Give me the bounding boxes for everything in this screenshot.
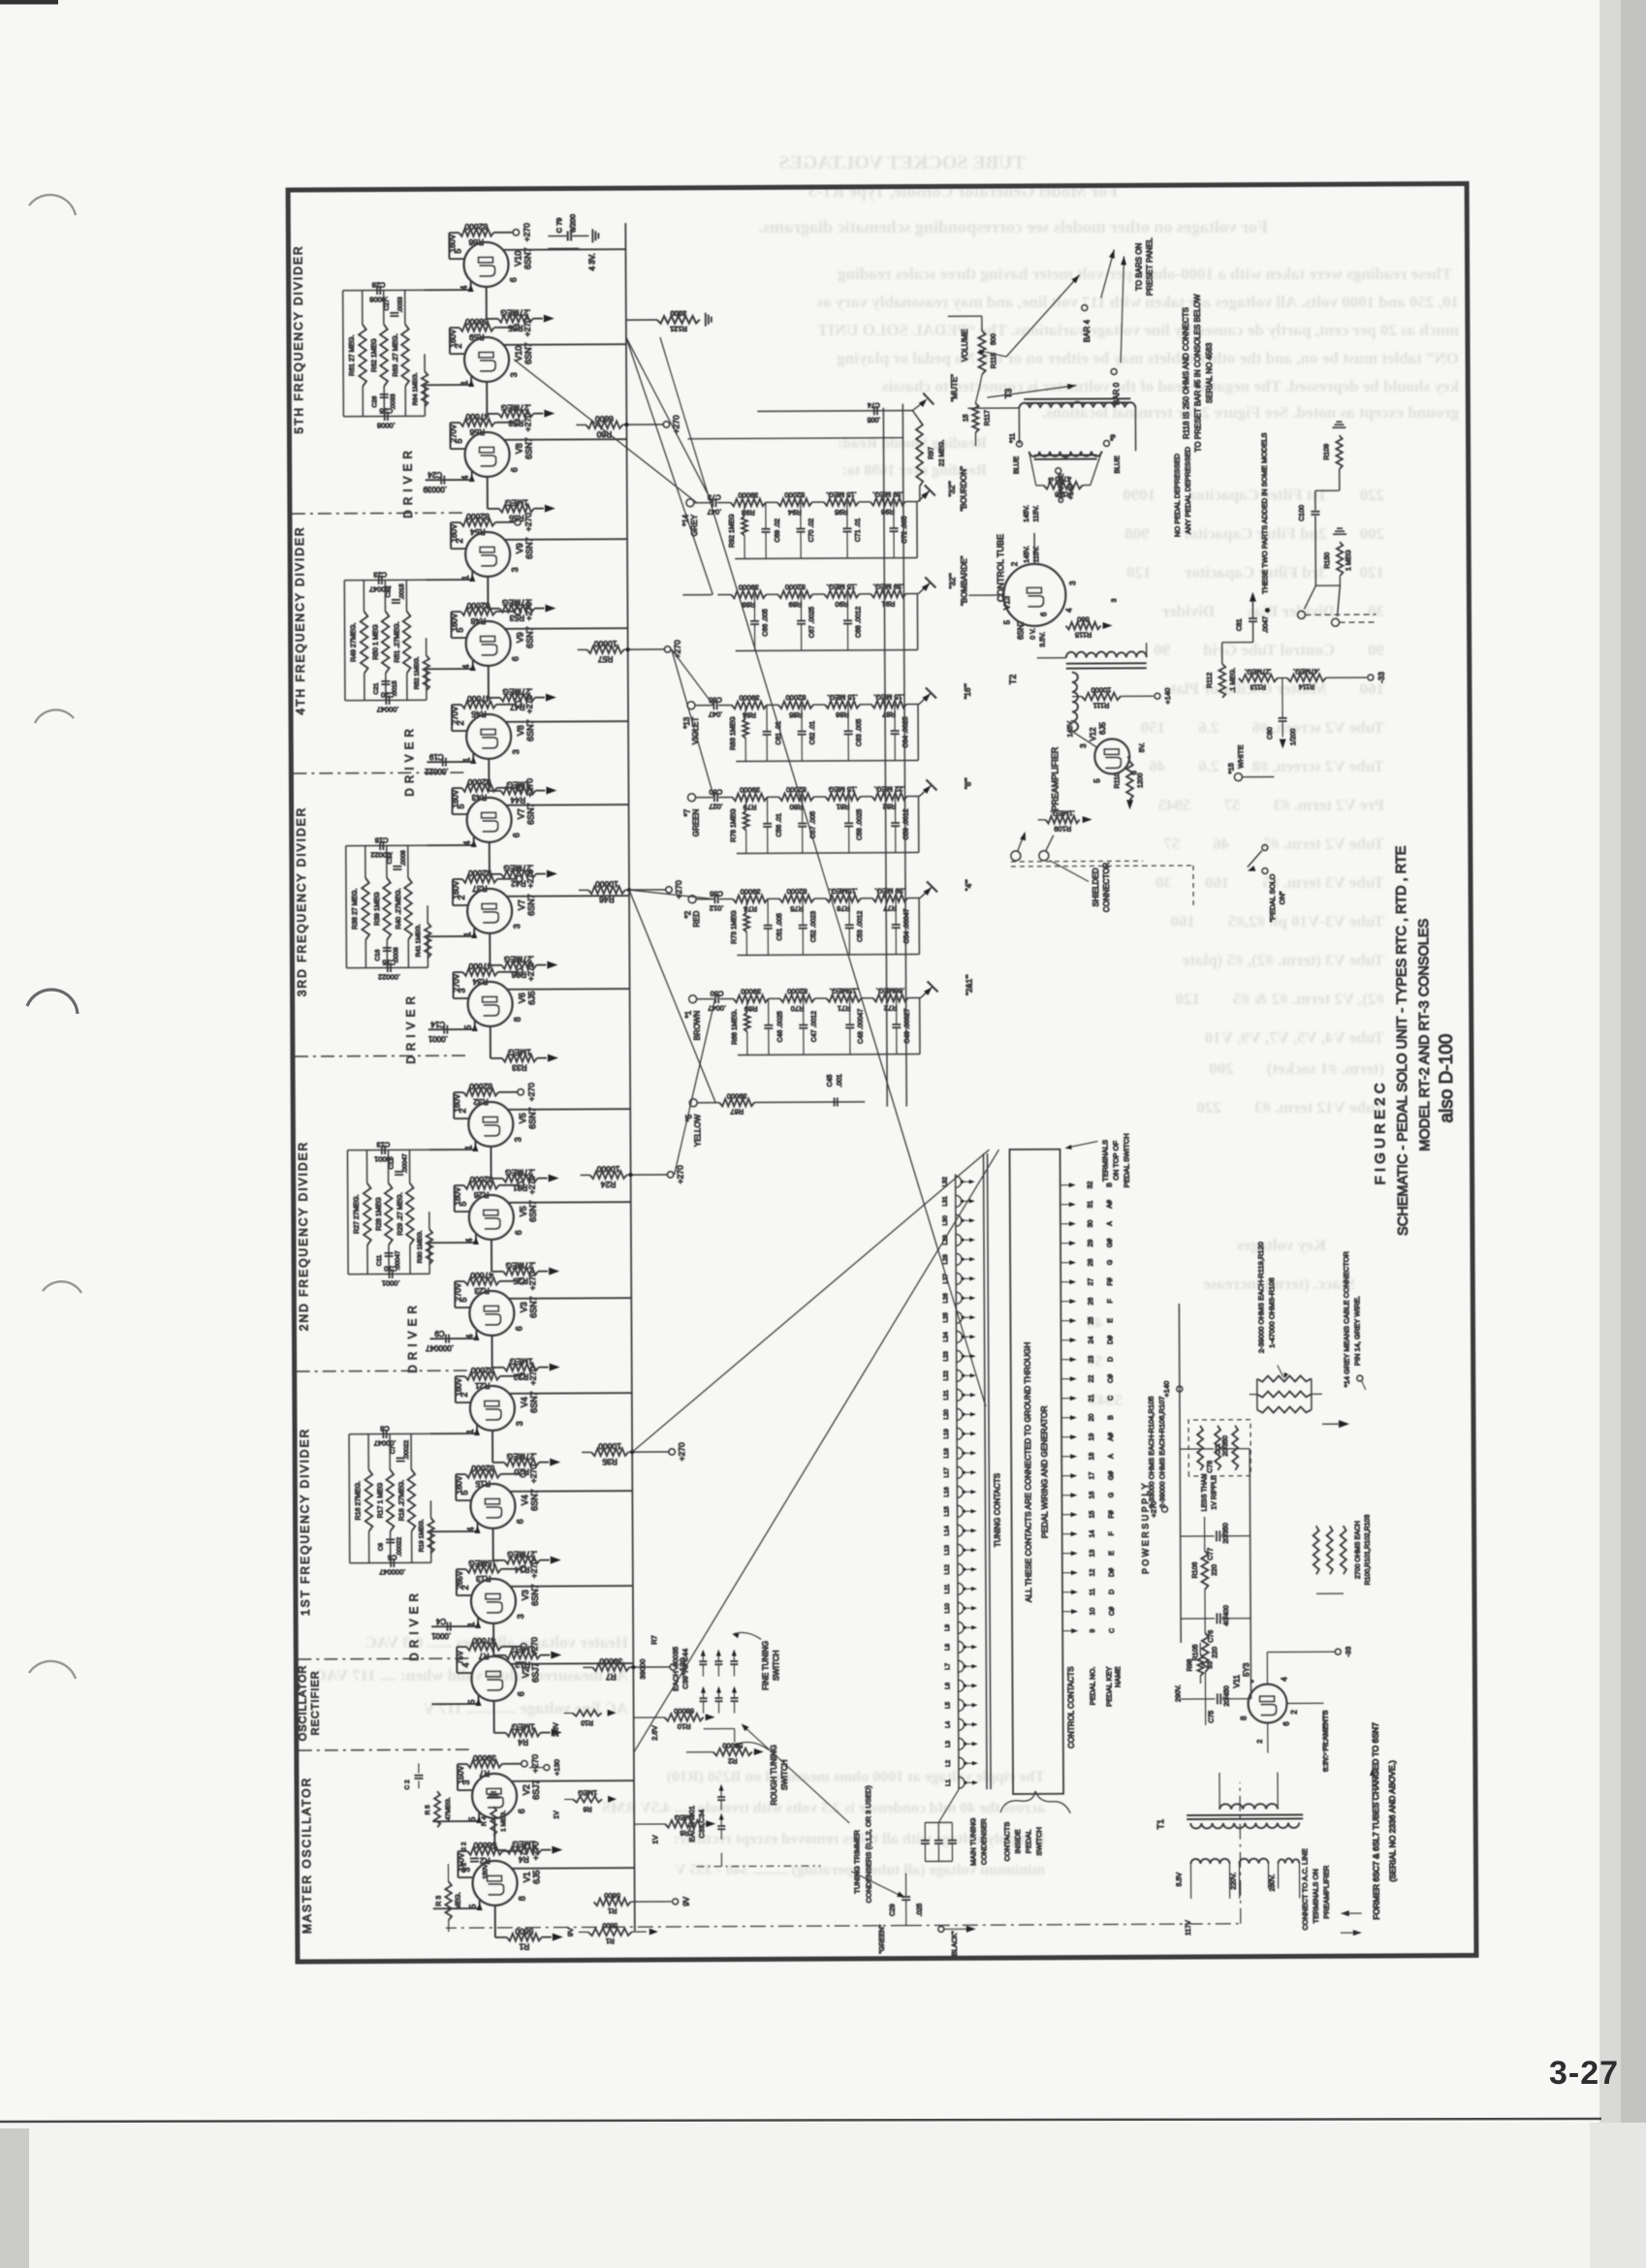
svg-text:C67 .0025: C67 .0025 xyxy=(808,607,815,638)
wire xyxy=(1011,865,1143,867)
terminal xyxy=(687,702,695,709)
svg-text:R28 1MEG: R28 1MEG xyxy=(376,1197,383,1231)
control contact 22 xyxy=(1061,1378,1073,1380)
wire xyxy=(292,512,467,515)
resistor R48 xyxy=(460,608,495,615)
svg-text:"8'": "8'" xyxy=(964,777,972,789)
wire xyxy=(963,1316,972,1318)
tuning contact L21 xyxy=(957,1389,963,1401)
wire xyxy=(342,291,345,417)
wire xyxy=(956,1174,959,1789)
control contact 10 xyxy=(1062,1611,1074,1613)
wire xyxy=(478,1694,480,1704)
capacitor xyxy=(396,1460,405,1462)
tuning contact L26 xyxy=(956,1292,962,1304)
wire xyxy=(918,898,920,955)
svg-text:R18 .27MEG.: R18 .27MEG. xyxy=(398,1480,405,1521)
svg-text:C6: C6 xyxy=(378,1542,385,1551)
wire xyxy=(744,501,766,503)
wire xyxy=(533,318,543,320)
wire xyxy=(1266,1653,1268,1685)
svg-text:39000: 39000 xyxy=(473,1753,496,1763)
tube V5 6SN7 xyxy=(469,1195,514,1240)
svg-text:G#: G# xyxy=(1108,1471,1115,1480)
tuning contact L29 xyxy=(956,1234,962,1245)
wire xyxy=(919,998,921,1055)
wire xyxy=(1305,614,1376,615)
wire xyxy=(510,1663,555,1665)
svg-text:R29 .27 MEG.: R29 .27 MEG. xyxy=(397,1192,404,1235)
wire xyxy=(581,1174,590,1176)
wire xyxy=(926,779,936,790)
svg-text:ALL THESE CONTACTS ARE CON: ALL THESE CONTACTS ARE CONNECTED TO GROU… xyxy=(1023,1342,1033,1603)
svg-text:.22 MEG.: .22 MEG. xyxy=(874,785,905,794)
resistor R121 xyxy=(657,316,700,324)
svg-text:270V: 270V xyxy=(449,424,458,442)
svg-text:R61 27 MEG.: R61 27 MEG. xyxy=(349,334,356,375)
resistor R84 xyxy=(732,702,767,709)
wire xyxy=(719,797,733,799)
svg-text:R57: R57 xyxy=(598,654,614,664)
wire xyxy=(859,593,870,595)
svg-text:+270: +270 xyxy=(671,415,681,433)
resistor R91 xyxy=(870,590,905,598)
svg-text:27: 27 xyxy=(1088,1278,1094,1286)
svg-text:G#: G# xyxy=(1107,1239,1114,1247)
svg-text:.15 MEG: .15 MEG xyxy=(828,785,857,794)
wire xyxy=(964,1336,973,1338)
svg-text:D: D xyxy=(1109,1590,1116,1594)
wire xyxy=(453,813,467,815)
svg-text:1MEG: 1MEG xyxy=(508,1048,531,1057)
svg-text:"BLACK": "BLACK" xyxy=(952,1931,959,1958)
wire xyxy=(965,1781,975,1783)
svg-text:8: 8 xyxy=(1240,1716,1249,1720)
svg-text:R78 1MEG: R78 1MEG xyxy=(731,808,738,842)
svg-text:C21: C21 xyxy=(373,682,380,694)
resistor R57 xyxy=(587,646,624,653)
svg-text:R121: R121 xyxy=(670,325,687,333)
wire xyxy=(918,704,919,706)
svg-text:Tube V2 screen, #6 2.6: Tube V2 screen, #6 2.6 150 xyxy=(1141,718,1384,737)
wire xyxy=(1127,756,1129,761)
capacitor xyxy=(442,758,444,767)
svg-text:C78: C78 xyxy=(1207,1461,1214,1473)
wire xyxy=(477,1522,479,1531)
resistor R113 xyxy=(1239,675,1278,682)
svg-text:C12: C12 xyxy=(389,1157,396,1169)
wire xyxy=(409,1244,411,1274)
terminal xyxy=(686,499,694,507)
svg-text:L21: L21 xyxy=(943,1390,950,1401)
tuning contact L25 xyxy=(956,1311,962,1323)
svg-text:V5: V5 xyxy=(519,1206,528,1216)
control contact 25 xyxy=(1060,1320,1072,1322)
wire xyxy=(457,1764,459,1790)
wire xyxy=(906,704,918,706)
svg-text:1MEG: 1MEG xyxy=(578,1788,597,1795)
wire xyxy=(450,612,452,638)
capacitor xyxy=(714,1663,722,1665)
svg-text:18: 18 xyxy=(1089,1453,1095,1461)
svg-text:R41 1MEG.: R41 1MEG. xyxy=(415,924,422,957)
wire xyxy=(688,438,903,439)
svg-text:C54 .00047: C54 .00047 xyxy=(903,908,910,943)
svg-text:Tube V3-V10 pl. #2,#5 1: Tube V3-V10 pl. #2,#5 160 xyxy=(1170,912,1384,930)
ground arrow xyxy=(546,787,556,795)
svg-text:TERMINALS ON: TERMINALS ON xyxy=(1311,1869,1319,1923)
wire xyxy=(457,1672,471,1674)
svg-text:39000: 39000 xyxy=(741,887,761,896)
resistor R20 xyxy=(504,1459,539,1466)
tuning contact L4 xyxy=(959,1718,965,1730)
wire xyxy=(475,1329,477,1339)
wire xyxy=(446,1926,906,1929)
wire xyxy=(768,998,770,1024)
wire xyxy=(926,687,936,698)
wire xyxy=(454,1091,463,1093)
svg-text:C 1: C 1 xyxy=(460,1863,467,1874)
svg-text:.27MEG: .27MEG xyxy=(500,308,530,318)
svg-text:20/350: 20/350 xyxy=(1223,1523,1230,1544)
wire xyxy=(1192,866,1194,906)
svg-text:160V: 160V xyxy=(450,613,459,631)
wire xyxy=(501,1568,521,1570)
wire xyxy=(502,1850,522,1852)
control contact 19 xyxy=(1061,1436,1073,1438)
svg-text:5Y3: 5Y3 xyxy=(1242,1662,1250,1677)
tuning contact L9 xyxy=(958,1622,964,1633)
tuning contact L3 xyxy=(959,1738,965,1749)
svg-text:160V: 160V xyxy=(453,1093,461,1112)
resistor R44 xyxy=(500,787,535,795)
svg-text:75V: 75V xyxy=(456,1650,464,1664)
svg-text:6: 6 xyxy=(511,656,521,661)
grid arrow xyxy=(476,1815,482,1823)
svg-text:C#: C# xyxy=(1109,1607,1116,1616)
resistor R60 xyxy=(586,421,622,428)
wire xyxy=(919,693,931,704)
wire xyxy=(388,1244,390,1274)
wire xyxy=(494,327,514,329)
wire xyxy=(744,502,745,516)
wire xyxy=(917,705,919,761)
svg-text:R116: R116 xyxy=(1055,490,1071,499)
wire xyxy=(490,964,501,966)
svg-text:*: * xyxy=(1250,1680,1257,1683)
wire xyxy=(902,404,906,1107)
wire xyxy=(702,1665,704,1677)
ground arrow xyxy=(551,1557,561,1564)
wire xyxy=(487,318,498,320)
wire xyxy=(908,997,920,999)
svg-text:MODEL RT-2 AND RT-3 CONSO: MODEL RT-2 AND RT-3 CONSOLES xyxy=(1416,919,1433,1151)
svg-text:L29: L29 xyxy=(942,1235,949,1245)
terminal xyxy=(673,1899,679,1905)
svg-text:6SJ7: 6SJ7 xyxy=(531,1780,541,1800)
svg-text:R111: R111 xyxy=(1093,701,1110,709)
wire xyxy=(579,247,625,249)
capacitor xyxy=(1216,1613,1218,1623)
svg-text:A: A xyxy=(1107,1221,1114,1226)
ground arrow xyxy=(546,694,556,702)
wire xyxy=(1072,696,1082,698)
svg-text:"4'": "4'" xyxy=(965,879,973,891)
svg-text:NO PEDAL DEPRESSED: NO PEDAL DEPRESSED xyxy=(1173,453,1182,537)
svg-text:*7: *7 xyxy=(683,808,692,816)
svg-text:30: 30 xyxy=(1088,1220,1094,1228)
svg-text:10000: 10000 xyxy=(595,879,618,889)
svg-text:F I G U R E 2 C: F I G U R E 2 C xyxy=(1372,1083,1389,1184)
svg-text:V10: V10 xyxy=(513,251,522,267)
svg-text:6.3V.- FILAMENTS: 6.3V.- FILAMENTS xyxy=(1321,1710,1330,1772)
svg-text:.0001: .0001 xyxy=(431,1631,452,1640)
wire (long diagonal) xyxy=(660,335,986,1408)
svg-text:+270: +270 xyxy=(524,778,534,797)
svg-text:SHIELDED: SHIELDED xyxy=(1092,867,1100,906)
terminal xyxy=(518,1089,523,1095)
wire xyxy=(859,501,870,503)
terminal xyxy=(670,1664,676,1670)
svg-text:.00022: .00022 xyxy=(425,767,449,775)
resistor R1 xyxy=(594,1898,631,1906)
wire xyxy=(579,889,588,891)
svg-text:.0047: .0047 xyxy=(708,1004,726,1013)
wire xyxy=(987,386,1076,397)
wire xyxy=(505,628,551,630)
svg-text:4700: 4700 xyxy=(1055,475,1071,484)
svg-text:6: 6 xyxy=(514,1326,523,1331)
wire xyxy=(449,328,451,354)
svg-text:39000: 39000 xyxy=(638,1659,647,1680)
terminal xyxy=(519,1278,524,1284)
svg-text:.1 MEG.: .1 MEG. xyxy=(1230,668,1237,693)
svg-text:TUBE SOCKET VOLTAGES: TUBE SOCKET VOLTAGES xyxy=(778,152,1026,173)
svg-text:L22: L22 xyxy=(943,1370,950,1381)
svg-text:MEG.: MEG. xyxy=(456,1892,462,1909)
wire xyxy=(1187,1817,1303,1820)
svg-text:10000: 10000 xyxy=(594,639,617,648)
control contact 26 xyxy=(1060,1301,1072,1303)
svg-text:C61 .01: C61 .01 xyxy=(776,721,782,745)
wire xyxy=(1251,602,1253,618)
svg-text:1V RIPPLE: 1V RIPPLE xyxy=(1211,1475,1218,1510)
wire xyxy=(720,1853,722,1867)
svg-text:17: 17 xyxy=(1089,1472,1095,1480)
svg-text:.0015: .0015 xyxy=(392,680,398,697)
svg-text:.68MEG.: .68MEG. xyxy=(876,987,905,995)
resistor R75 xyxy=(779,895,814,902)
wire xyxy=(1256,1379,1258,1410)
svg-text:6: 6 xyxy=(1282,1721,1291,1726)
svg-text:R114: R114 xyxy=(1299,682,1314,689)
svg-text:Tube V4, V5, V7, V9, V10: Tube V4, V5, V7, V9, V10 xyxy=(1172,1028,1384,1047)
wire xyxy=(768,898,779,899)
wire xyxy=(634,1717,665,1718)
wire xyxy=(293,772,468,774)
svg-text:G: G xyxy=(1107,1260,1114,1265)
svg-text:R1: R1 xyxy=(519,1942,529,1952)
ground arrow xyxy=(550,1459,560,1466)
capacitor xyxy=(567,231,569,240)
wire xyxy=(918,490,930,501)
wire xyxy=(424,385,426,416)
tuning contact L31 xyxy=(956,1195,962,1207)
wire xyxy=(896,998,898,1024)
wire xyxy=(695,705,712,707)
svg-text:160V: 160V xyxy=(448,234,457,252)
wire xyxy=(404,386,406,416)
wire xyxy=(938,1789,959,1822)
wire xyxy=(456,1402,470,1403)
terminal xyxy=(689,995,697,1003)
svg-text:115V.: 115V. xyxy=(1033,505,1040,521)
wire xyxy=(1221,1535,1250,1537)
svg-text:10000: 10000 xyxy=(596,1164,619,1174)
wire xyxy=(428,1243,430,1274)
wire xyxy=(549,343,626,345)
wire xyxy=(907,898,919,899)
control contact 9 xyxy=(1062,1630,1074,1632)
svg-text:C72 .005: C72 .005 xyxy=(902,516,908,544)
svg-text:R70: R70 xyxy=(791,1004,805,1013)
svg-text:.0033: .0033 xyxy=(390,394,396,410)
terminal xyxy=(667,1172,673,1178)
svg-text:.27MEG: .27MEG xyxy=(507,1452,537,1462)
svg-text:+270: +270 xyxy=(529,1637,539,1655)
svg-text:VOLUME: VOLUME xyxy=(961,329,969,362)
wire xyxy=(733,1665,735,1677)
svg-text:TO PRESET BAR #5 IN CONSOLES B: TO PRESET BAR #5 IN CONSOLES BELOW xyxy=(1193,294,1203,452)
resistor R37 xyxy=(462,875,497,883)
resistor R22 xyxy=(504,1364,539,1371)
control contact 17 xyxy=(1061,1475,1073,1477)
resistor R86 xyxy=(825,701,860,709)
ground xyxy=(591,229,593,242)
svg-text:V4: V4 xyxy=(520,1397,529,1407)
svg-text:6SN7: 6SN7 xyxy=(526,803,536,825)
svg-text:C47 .0012: C47 .0012 xyxy=(811,1011,818,1042)
capacitor xyxy=(892,1026,901,1028)
svg-text:C56 .01: C56 .01 xyxy=(776,813,783,837)
resistor xyxy=(403,611,411,673)
tuning contact L11 xyxy=(958,1583,964,1594)
wire xyxy=(862,997,873,999)
svg-text:68000: 68000 xyxy=(674,1707,694,1716)
wire xyxy=(452,637,466,639)
svg-text:.27MEG: .27MEG xyxy=(507,1550,537,1559)
svg-text:270V: 270V xyxy=(452,973,460,992)
resistor xyxy=(404,877,412,939)
svg-text:R15: R15 xyxy=(475,1479,491,1489)
svg-text:19: 19 xyxy=(1089,1433,1095,1441)
terminal xyxy=(1357,1375,1363,1381)
svg-text:6SN7: 6SN7 xyxy=(1017,619,1026,640)
svg-text:.025: .025 xyxy=(917,1904,924,1917)
wire xyxy=(489,790,500,792)
wire xyxy=(846,502,848,528)
svg-text:TO BARS ON: TO BARS ON xyxy=(1134,242,1143,290)
svg-text:CONTACTS: CONTACTS xyxy=(1002,1822,1011,1862)
svg-text:PEDAL: PEDAL xyxy=(1024,1830,1032,1854)
wire xyxy=(737,853,919,854)
svg-text:T1: T1 xyxy=(1155,1819,1165,1830)
svg-text:BLUE: BLUE xyxy=(1014,456,1021,474)
svg-text:PRESET PANEL: PRESET PANEL xyxy=(1145,237,1154,296)
svg-text:R 5: R 5 xyxy=(425,1805,431,1815)
svg-text:R1: R1 xyxy=(608,1906,617,1915)
grid arrow xyxy=(472,1144,478,1151)
svg-text:265V: 265V xyxy=(456,1570,464,1589)
svg-text:V2: V2 xyxy=(522,1784,531,1795)
wire xyxy=(963,1219,972,1221)
wire xyxy=(718,705,732,707)
wire xyxy=(800,502,802,528)
svg-text:V10: V10 xyxy=(514,346,523,362)
svg-text:R34: R34 xyxy=(472,977,488,987)
wire xyxy=(832,1101,838,1103)
svg-text:R68 1MEG.: R68 1MEG. xyxy=(732,1009,739,1045)
svg-text:10: 10 xyxy=(1090,1608,1096,1616)
svg-text:2ND FREQUENCY DIVIDER: 2ND FREQUENCY DIVIDER xyxy=(296,1141,310,1332)
resistor R111 xyxy=(1082,693,1121,701)
svg-text:145V.: 145V. xyxy=(1024,505,1030,522)
capacitor xyxy=(699,1663,707,1665)
svg-text:82000: 82000 xyxy=(464,222,488,232)
wire xyxy=(299,1748,474,1751)
wire (long diagonal) xyxy=(630,1150,991,1452)
svg-text:33: 33 xyxy=(1207,1661,1214,1669)
svg-text:1200: 1200 xyxy=(1137,772,1144,788)
resistor xyxy=(359,325,366,387)
wire xyxy=(533,413,543,415)
wire (long diagonal) xyxy=(674,999,716,1175)
svg-text:.00022: .00022 xyxy=(396,1537,403,1557)
wire xyxy=(453,971,462,973)
svg-text:V11: V11 xyxy=(1232,1674,1241,1687)
resistor R1 xyxy=(507,1934,542,1941)
svg-text:C39 TO C44: C39 TO C44 xyxy=(681,1649,689,1689)
wire xyxy=(919,785,931,796)
svg-text:29: 29 xyxy=(1088,1240,1094,1247)
svg-text:R98: R98 xyxy=(1187,1658,1193,1671)
wire xyxy=(427,761,441,763)
svg-text:8: 8 xyxy=(513,1017,522,1022)
svg-text:V4: V4 xyxy=(520,1495,529,1505)
svg-text:BLUE: BLUE xyxy=(1115,456,1122,474)
svg-text:82000: 82000 xyxy=(787,987,807,995)
svg-text:V8: V8 xyxy=(515,443,524,454)
grid arrow xyxy=(469,474,475,482)
svg-text:R73 1MEG: R73 1MEG xyxy=(731,910,738,944)
wire xyxy=(492,1367,504,1369)
capacitor xyxy=(763,826,772,828)
terminal xyxy=(544,1765,550,1771)
wire xyxy=(981,316,983,331)
svg-text:L17: L17 xyxy=(943,1467,950,1478)
wire xyxy=(686,1751,713,1753)
control contact 11 xyxy=(1062,1591,1074,1593)
svg-text:R91: R91 xyxy=(882,600,896,609)
capacitor xyxy=(381,683,390,685)
capacitor xyxy=(384,412,386,421)
ground arrow xyxy=(552,1729,562,1737)
capacitor xyxy=(447,1622,449,1631)
svg-text:R10: R10 xyxy=(581,1718,593,1725)
resistor R47 xyxy=(500,694,535,702)
svg-text:"16'": "16'" xyxy=(964,683,972,699)
svg-text:6SN7: 6SN7 xyxy=(528,1200,538,1222)
